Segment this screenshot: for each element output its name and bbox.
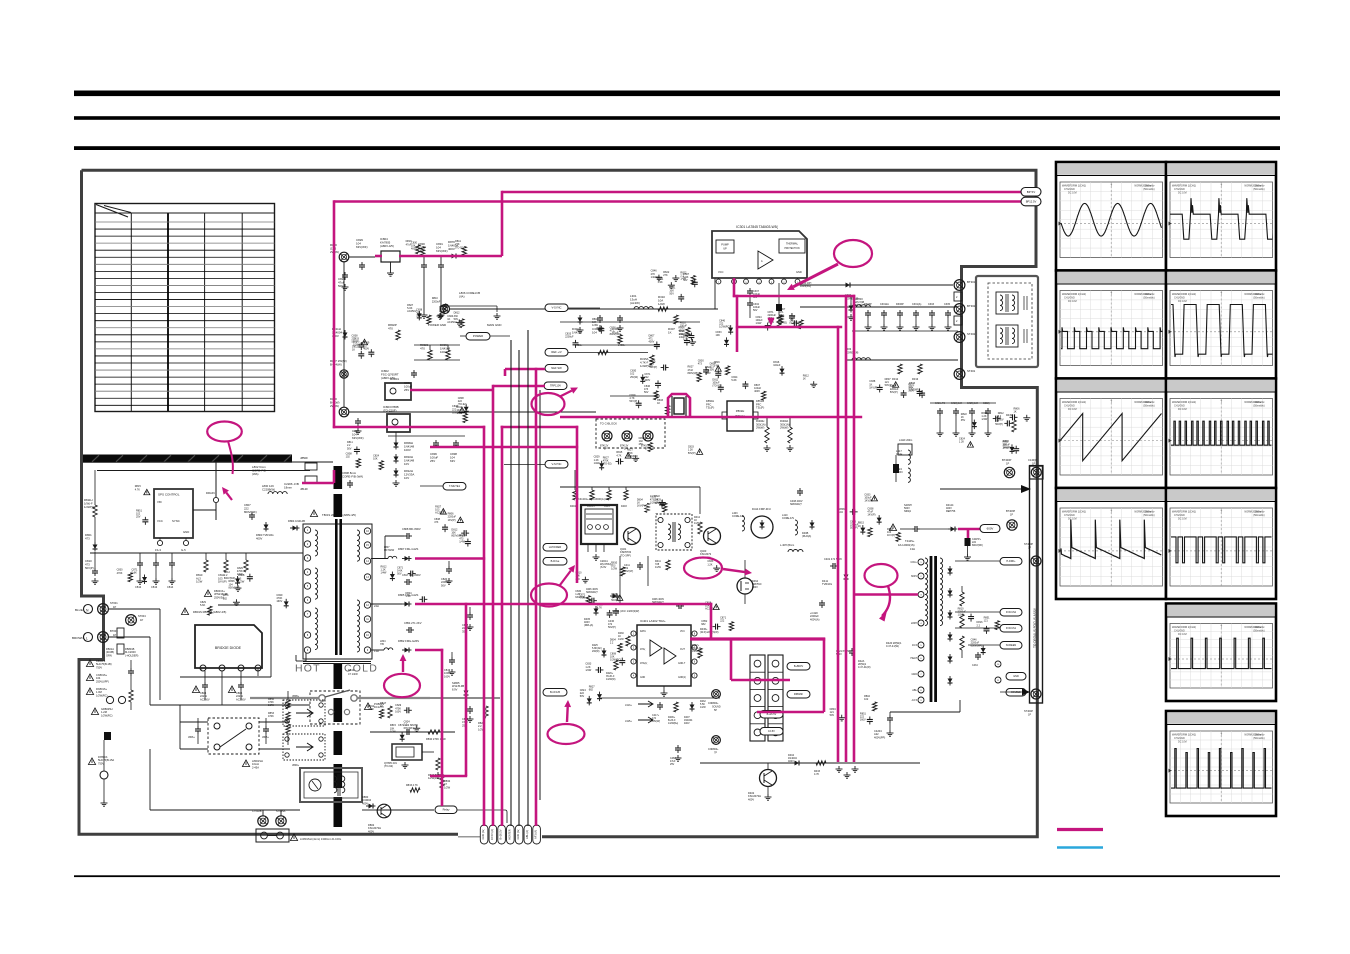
label L8001SH xyxy=(242,760,249,766)
svg-text:(50ms/div): (50ms/div) xyxy=(1253,514,1264,517)
jumper J850F xyxy=(305,463,317,470)
svg-text:T-MUTE1: T-MUTE1 xyxy=(449,484,461,488)
svg-text:(50ms/div): (50ms/div) xyxy=(1253,188,1264,191)
svg-text:OUT: OUT xyxy=(680,649,685,651)
svg-text:121: 121 xyxy=(683,338,688,341)
svg-text:13H: 13H xyxy=(910,547,915,551)
capacitor C420 xyxy=(821,600,823,603)
svg-text:35V: 35V xyxy=(416,315,421,318)
net pill B+B00V xyxy=(787,663,810,671)
svg-text:2W(W): 2W(W) xyxy=(592,650,600,653)
oscilloscope panel row3 left xyxy=(1056,379,1166,489)
svg-text:J413+: J413+ xyxy=(625,704,632,707)
relay RL801 contact box xyxy=(208,718,259,754)
resistor R460H xyxy=(765,427,769,443)
svg-text:400V: 400V xyxy=(362,801,368,805)
svg-text:(-HOLDER): (-HOLDER) xyxy=(125,653,139,657)
svg-text:1/2W(W): 1/2W(W) xyxy=(84,505,95,509)
capacitor C804 xyxy=(204,682,206,685)
svg-text:FAJ-2900(1S): FAJ-2900(1S) xyxy=(898,543,915,547)
pink IC802 rail y390 xyxy=(410,389,494,392)
inductor L424 xyxy=(908,468,910,482)
diode D407 xyxy=(691,702,693,705)
pink net BP 5V horizontal xyxy=(502,191,1021,194)
svg-text:1.2K: 1.2K xyxy=(959,440,964,443)
net pill B-CF1rB xyxy=(543,689,567,697)
svg-text:1P: 1P xyxy=(140,618,143,622)
svg-text:800V(WF): 800V(WF) xyxy=(244,510,257,514)
svg-text:7P: 7P xyxy=(714,752,717,755)
svg-text:1.2K: 1.2K xyxy=(406,595,411,598)
svg-text:4.7K: 4.7K xyxy=(814,773,819,776)
svg-text:47 1/2W: 47 1/2W xyxy=(348,672,358,676)
connector ST402 xyxy=(954,332,965,343)
pink bundle vertical x536 xyxy=(535,368,538,826)
svg-text:1S-3: 1S-3 xyxy=(155,548,161,552)
resistor R312 xyxy=(898,364,902,374)
svg-text:222: 222 xyxy=(720,619,725,622)
wire focus outputs xyxy=(955,611,1000,613)
svg-text:FOCUS2: FOCUS2 xyxy=(1006,611,1017,614)
svg-text:1/2W: 1/2W xyxy=(611,567,617,570)
pink callout oval secondary xyxy=(384,674,420,697)
svg-text:B+B00V: B+B00V xyxy=(794,665,804,668)
svg-text:50V(P): 50V(P) xyxy=(608,626,616,629)
svg-text:WAVEFORM 1(CH1): WAVEFORM 1(CH1) xyxy=(1062,184,1086,188)
wire cluster z1 xyxy=(414,359,460,361)
wire B+ rail to FBT xyxy=(856,594,860,596)
svg-text:GND: GND xyxy=(183,530,189,534)
svg-text:WAVEFORM 1(CH1): WAVEFORM 1(CH1) xyxy=(1172,733,1196,737)
diode D805 xyxy=(402,603,405,605)
shunt regulator Q7805 KA431 xyxy=(392,744,422,760)
svg-text:D414 FMP-3FU: D414 FMP-3FU xyxy=(752,507,771,511)
pink callout oval B+ xyxy=(865,564,898,587)
resistor R802P xyxy=(396,330,400,340)
wire z5 bottom rail xyxy=(600,697,720,699)
svg-text:63V(WF): 63V(WF) xyxy=(404,727,414,730)
svg-text:PUMP: PUMP xyxy=(721,243,729,247)
svg-text:C421+T2: C421+T2 xyxy=(935,402,946,405)
svg-text:GND(1(: GND(1( xyxy=(678,677,686,679)
svg-text:1HA(1(: 1HA(1( xyxy=(640,662,648,665)
wire z5 mid links xyxy=(560,603,582,605)
capacitor cluster C812-C814 xyxy=(139,560,141,563)
svg-text:SRD944(T: SRD944(T xyxy=(790,503,802,506)
transistor Q401 KSD5703 xyxy=(624,528,641,545)
svg-text:(TO-92): (TO-92) xyxy=(778,322,787,325)
pink callout oval Q404 xyxy=(684,558,722,579)
svg-text:(A80V-4/5): (A80V-4/5) xyxy=(380,244,394,248)
capacitor C803 right xyxy=(265,726,267,729)
svg-text:POWER: POWER xyxy=(473,334,483,338)
wire main rail y412 xyxy=(349,411,596,413)
svg-text:473: 473 xyxy=(434,521,439,524)
diode D411 TVR10G xyxy=(845,572,847,575)
pink NEF SW rail y369 xyxy=(505,368,545,371)
svg-text:(50ms/div): (50ms/div) xyxy=(1143,296,1154,299)
net pill SCREEN xyxy=(1000,642,1022,650)
svg-text:WAVEFORM 1(CH1): WAVEFORM 1(CH1) xyxy=(1172,184,1196,188)
svg-text:800V(WF): 800V(WF) xyxy=(610,333,622,336)
diode ladder D809H xyxy=(395,440,397,443)
svg-text:(TO-92): (TO-92) xyxy=(603,463,612,466)
label K8001S xyxy=(86,660,93,666)
fuse FP801S xyxy=(88,758,95,764)
capacitor C819 xyxy=(451,652,453,657)
svg-text:T: T xyxy=(1110,292,1112,296)
oscilloscope panel row1 left xyxy=(1056,162,1166,271)
svg-text:18mm: 18mm xyxy=(284,486,293,490)
svg-text:B-Drive: B-Drive xyxy=(551,559,560,563)
diode D408 xyxy=(811,520,813,523)
svg-text:WAVEFORM 1(CH1): WAVEFORM 1(CH1) xyxy=(1062,510,1086,514)
svg-text:1K: 1K xyxy=(803,378,806,381)
svg-text:100uF: 100uF xyxy=(680,324,688,327)
net pill TRP110V xyxy=(544,382,567,390)
net pill DOUBLE xyxy=(1006,689,1026,697)
svg-text:1/2W(Re): 1/2W(Re) xyxy=(668,722,678,725)
svg-text:R6B16F: R6B16F xyxy=(794,693,804,696)
svg-text:10K: 10K xyxy=(373,458,378,461)
capacitor C820 xyxy=(448,561,450,566)
wire arrow to right edge xyxy=(940,488,1028,490)
node pin10 xyxy=(995,661,1001,667)
capacitor C802 left xyxy=(197,726,199,729)
pink callout oval Bdrive xyxy=(531,584,567,607)
black bundle vertical x519 xyxy=(518,350,520,826)
svg-text:HOT: HOT xyxy=(295,663,321,675)
svg-text:B-CF1rB: B-CF1rB xyxy=(550,690,560,694)
svg-text:C220B(W): C220B(W) xyxy=(262,487,275,491)
resistor R449 xyxy=(1012,420,1016,432)
svg-text:GND: GND xyxy=(796,270,802,274)
IC301 pins 1-7 xyxy=(716,279,721,284)
wire main rail y309 xyxy=(450,308,718,310)
pink rail y296 xyxy=(733,295,855,298)
AV shield box xyxy=(976,276,1038,367)
HOT/COLD isolation barrier (dashed bar) xyxy=(334,466,343,489)
capacitor C303 xyxy=(619,315,621,318)
svg-text:BP12.5V: BP12.5V xyxy=(1026,199,1037,203)
svg-text:470: 470 xyxy=(420,347,425,351)
node D820 terminal xyxy=(339,407,349,417)
svg-text:16-5V: 16-5V xyxy=(768,730,775,733)
capacitor C807 xyxy=(251,512,253,515)
net pill H-POWER xyxy=(543,544,567,552)
svg-text:J809+: J809+ xyxy=(292,763,300,767)
wire V-SYNC upper xyxy=(568,307,600,309)
svg-text:400V: 400V xyxy=(256,536,262,540)
wire IC803 bus xyxy=(388,435,465,437)
pink bundle vertical x484 xyxy=(483,426,486,826)
pink secondary rail 12V xyxy=(415,557,485,560)
svg-text:J850F: J850F xyxy=(300,456,308,460)
svg-text:(RRL(A): (RRL(A) xyxy=(584,624,593,627)
pink IC301 pin4 riser xyxy=(733,278,736,297)
wire z5 top rail xyxy=(560,486,700,488)
svg-text:1/2W(RC): 1/2W(RC) xyxy=(101,713,113,717)
svg-text:1/2W: 1/2W xyxy=(618,638,624,641)
svg-text:C140(P: C140(P xyxy=(1028,458,1037,462)
svg-text:1/4W: 1/4W xyxy=(981,418,987,421)
pink callout oval TRP xyxy=(532,393,565,415)
svg-text:D804 1N414B: D804 1N414B xyxy=(288,519,305,523)
svg-text:TO C-BLOCK: TO C-BLOCK xyxy=(600,422,617,426)
oscilloscope panel row1 right xyxy=(1154,162,1305,271)
capacitor cluster C42x xyxy=(939,408,941,411)
svg-text:50V: 50V xyxy=(580,695,585,698)
svg-text:50V: 50V xyxy=(753,309,758,312)
svg-text:682: 682 xyxy=(223,597,228,600)
svg-text:WAVEFORM 1(CH1): WAVEFORM 1(CH1) xyxy=(1062,292,1086,296)
svg-text:63V(WF): 63V(WF) xyxy=(352,436,364,440)
svg-text:UP: UP xyxy=(723,247,727,251)
svg-text:1K: 1K xyxy=(352,348,355,351)
transistor Q802 xyxy=(377,804,391,818)
jumper J812F xyxy=(305,476,317,483)
svg-text:BT302: BT302 xyxy=(967,304,976,308)
svg-text:220H: 220H xyxy=(911,622,917,625)
transistor IC802 FSC-Q765RT xyxy=(385,383,411,400)
wire feedback rail y732 xyxy=(370,731,455,733)
svg-text:35V: 35V xyxy=(710,369,715,372)
black bundle vertical x528 xyxy=(527,330,529,826)
svg-text:T: T xyxy=(1220,509,1222,513)
pink 600V stub xyxy=(958,528,980,531)
svg-text:1/2W: 1/2W xyxy=(594,462,600,465)
svg-text:400V: 400V xyxy=(363,347,369,350)
svg-text:T3L(P): T3L(P) xyxy=(756,406,764,410)
svg-text:J805+: J805+ xyxy=(262,736,269,739)
diode D807 xyxy=(402,558,405,560)
svg-text:C305: C305 xyxy=(944,303,951,306)
svg-text:BT301: BT301 xyxy=(967,280,976,284)
svg-text:T: T xyxy=(1220,183,1222,187)
pink net BP12.5V horizontal xyxy=(334,200,1021,203)
svg-text:G-5: G-5 xyxy=(181,548,186,552)
capacitor row C30x xyxy=(867,310,869,313)
svg-text:1/2W: 1/2W xyxy=(658,302,665,306)
svg-text:50V(P): 50V(P) xyxy=(85,566,94,570)
box L411F xyxy=(898,444,912,455)
svg-text:1/4W: 1/4W xyxy=(456,412,462,415)
resistor R833 xyxy=(410,788,420,792)
transistor Q402 xyxy=(760,770,777,787)
svg-text:IC301 LA7845 TA8403-W5(: IC301 LA7845 TA8403-W5( xyxy=(736,225,778,229)
hybrid KIC401 SRC300 xyxy=(581,505,617,544)
svg-text:ST401: ST401 xyxy=(967,369,976,373)
svg-text:VfD: VfD xyxy=(157,500,162,504)
inductor L800 xyxy=(268,492,287,494)
resistor row R40x xyxy=(573,490,577,500)
TO CRT SOCKET strip xyxy=(1030,466,1043,703)
svg-text:ST004: ST004 xyxy=(138,614,146,618)
svg-text:C808 861 800V: C808 861 800V xyxy=(402,527,421,531)
resistor R8021 xyxy=(428,350,432,360)
svg-text:GND (A(: GND (A( xyxy=(516,829,520,839)
thermistor P802H PTC xyxy=(727,401,753,431)
svg-text:1KV(P): 1KV(P) xyxy=(448,519,456,522)
svg-text:R312: R312 xyxy=(892,377,899,381)
svg-text:C814: C814 xyxy=(167,585,174,589)
oscilloscope panel row2 left xyxy=(1056,271,1166,379)
svg-text:C425) 104: C425) 104 xyxy=(967,402,979,405)
IC SPS CONTROL xyxy=(154,489,193,538)
pink rail y427 right segment xyxy=(501,426,579,429)
capacitor C8038 xyxy=(349,480,351,483)
svg-text:682: 682 xyxy=(589,689,594,692)
svg-text:8.9V: 8.9V xyxy=(452,687,458,691)
capacitor C831 xyxy=(440,262,442,265)
svg-text:1/2W: 1/2W xyxy=(958,614,964,617)
svg-text:C301(A): C301(A) xyxy=(912,303,921,306)
svg-text:DATA: DATA xyxy=(640,630,646,633)
svg-text:1/4W: 1/4W xyxy=(1003,446,1009,449)
svg-text:160V: 160V xyxy=(860,719,866,722)
svg-text:50V(P): 50V(P) xyxy=(890,391,898,394)
svg-text:1K: 1K xyxy=(657,402,660,405)
resistor R412 xyxy=(698,522,702,534)
oscilloscope panel row3 right xyxy=(1166,379,1276,489)
pink B+ vertical x854 xyxy=(853,295,856,762)
svg-text:1P: 1P xyxy=(113,633,116,637)
capacitor C436 xyxy=(615,608,617,611)
svg-text:BP 5V: BP 5V xyxy=(1027,190,1035,194)
oscilloscope panel row4 right xyxy=(1166,488,1276,599)
connector ST004 xyxy=(126,615,137,626)
svg-text:1/2W(W): 1/2W(W) xyxy=(606,678,616,681)
wire IC301 pin1 to BT301 xyxy=(798,284,954,286)
net pill FOCUS2 xyxy=(1000,609,1022,617)
svg-text:N68(A: N68(A xyxy=(904,510,911,513)
pink branch y427 to bundle xyxy=(333,426,485,429)
wire RB20 to IC804 xyxy=(349,256,375,258)
wire z4 bottom rail xyxy=(300,809,362,811)
svg-text:5-6K: 5-6K xyxy=(714,364,720,367)
svg-text:WAVEFORM 1(CH1): WAVEFORM 1(CH1) xyxy=(1172,400,1196,404)
svg-text:WAVEFORM 1(CH1): WAVEFORM 1(CH1) xyxy=(1062,400,1086,404)
varistor GR801S xyxy=(106,696,113,703)
net pill GND6 xyxy=(1006,673,1026,681)
oscilloscope panel row5 right xyxy=(1166,604,1276,702)
pink FBT feed y594 xyxy=(855,593,918,596)
legend pink line xyxy=(1057,828,1103,831)
wire vertical x344 xyxy=(343,262,345,407)
ground MAIN GND xyxy=(496,313,498,316)
net pill R6B16F xyxy=(787,691,810,699)
diode D870 xyxy=(449,255,452,257)
svg-text:5-6K: 5-6K xyxy=(731,379,737,382)
net pill BP12.5V xyxy=(1021,197,1041,206)
svg-text:50V: 50V xyxy=(683,279,688,282)
resistor R313 xyxy=(918,364,922,374)
inductor L409 xyxy=(788,550,803,553)
svg-text:100V: 100V xyxy=(440,350,447,354)
svg-text:121: 121 xyxy=(984,620,989,623)
svg-text:HEAT: HEAT xyxy=(911,657,918,660)
svg-text:2200uF: 2200uF xyxy=(565,336,574,339)
capacitor C401 xyxy=(830,565,833,567)
svg-text:50V: 50V xyxy=(347,447,352,450)
net pill 600V xyxy=(980,525,1000,533)
svg-text:DC 10V/: DC 10V/ xyxy=(1068,300,1077,303)
diode D414 FMP-3FU xyxy=(751,516,773,538)
svg-text:600V: 600V xyxy=(911,575,917,578)
capacitor C302 xyxy=(599,315,601,318)
svg-text:R813: R813 xyxy=(348,668,355,672)
svg-text:D852 FMG-G26S: D852 FMG-G26S xyxy=(398,639,419,643)
svg-text:600V: 600V xyxy=(987,527,994,531)
connector BT301 xyxy=(954,280,965,291)
IC401 LA302 vertical output xyxy=(637,625,691,686)
IC301 LA7845 vertical-deflection IC xyxy=(712,231,807,278)
connector BT302 xyxy=(954,304,965,315)
svg-text:104: 104 xyxy=(592,331,597,335)
svg-text:V-SYNC: V-SYNC xyxy=(551,462,561,466)
svg-text:5-6K: 5-6K xyxy=(200,604,206,607)
svg-text:400V: 400V xyxy=(448,247,455,251)
jumper box J808 xyxy=(283,700,325,726)
svg-text:750V: 750V xyxy=(96,665,102,669)
svg-text:2W(W): 2W(W) xyxy=(630,376,638,379)
pink secondary rail 135V xyxy=(415,649,443,652)
svg-text:25V: 25V xyxy=(404,388,409,392)
svg-text:C302): C302) xyxy=(983,402,990,405)
svg-text:1KV(P): 1KV(P) xyxy=(887,534,895,537)
inductor L301 xyxy=(634,307,653,309)
oscilloscope panel row2 right xyxy=(1166,271,1300,379)
wire second rail y360 xyxy=(845,359,958,361)
svg-text:C401 471 500V: C401 471 500V xyxy=(824,557,842,561)
svg-text:1K: 1K xyxy=(1013,411,1016,414)
svg-text:800V(WF): 800V(WF) xyxy=(971,645,983,648)
svg-text:(50ms/div): (50ms/div) xyxy=(1253,404,1264,407)
svg-text:2W(W): 2W(W) xyxy=(756,426,764,430)
capacitor C824 xyxy=(344,272,346,275)
svg-text:102: 102 xyxy=(864,698,869,701)
svg-text:1/2W(RC): 1/2W(RC) xyxy=(627,455,638,458)
svg-text:1/4W: 1/4W xyxy=(381,571,387,574)
svg-text:J415+: J415+ xyxy=(625,720,632,723)
svg-text:400V: 400V xyxy=(644,379,650,382)
capacitor C829 xyxy=(361,262,363,265)
svg-text:D807 FML-G12S: D807 FML-G12S xyxy=(398,547,419,551)
svg-text:TO DEGAUS FOCUS ASSY: TO DEGAUS FOCUS ASSY xyxy=(1033,607,1037,648)
svg-text:(TO-3PF): (TO-3PF) xyxy=(620,553,631,557)
svg-text:470: 470 xyxy=(388,327,393,331)
resistor R815 xyxy=(224,560,228,572)
svg-text:50V: 50V xyxy=(830,714,835,717)
inductor L303 xyxy=(852,358,870,360)
resistor R433 xyxy=(816,761,826,765)
wire drain rail y462 xyxy=(150,461,333,463)
resistor R460A xyxy=(788,427,792,443)
svg-text:D403: D403 xyxy=(621,505,627,508)
connector ST401 xyxy=(954,369,965,380)
wire POWER pill xyxy=(460,335,466,337)
svg-text:(RU2(A): (RU2(A) xyxy=(802,535,811,538)
pink arrow to SPS drain xyxy=(226,493,232,500)
svg-text:DC 10V/: DC 10V/ xyxy=(1178,192,1187,195)
pink PFC rail y417 left xyxy=(430,446,578,449)
top rule bar 2 xyxy=(74,116,1280,120)
schematic border outline xyxy=(82,170,1038,837)
diode D852 xyxy=(402,649,405,651)
svg-text:(VA): (VA) xyxy=(459,295,465,299)
oscilloscope panel row6 right xyxy=(1166,711,1276,816)
svg-text:AC250V: AC250V xyxy=(447,321,457,324)
